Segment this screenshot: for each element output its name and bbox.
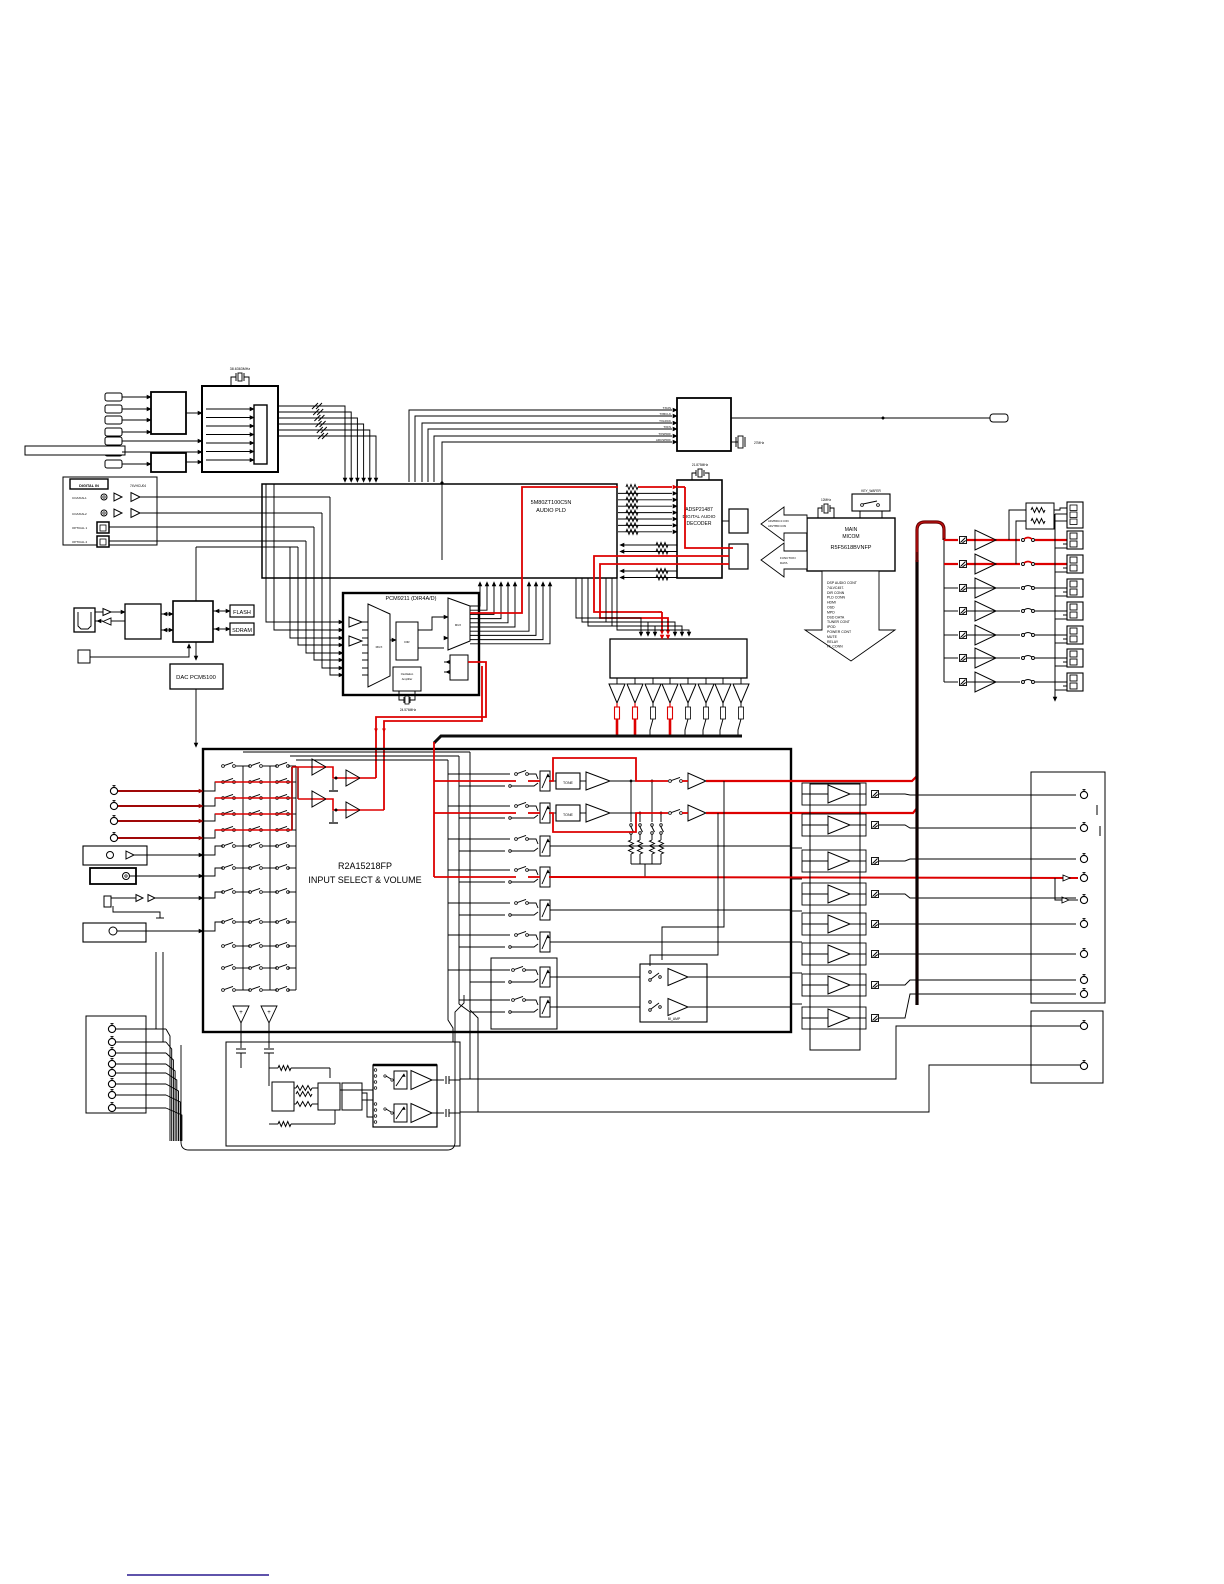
RCA aux jack <box>108 1069 115 1076</box>
svg-text:HL CONN: HL CONN <box>827 645 843 649</box>
wire <box>444 671 450 673</box>
resistor <box>705 703 707 707</box>
wire <box>288 867 296 869</box>
wire <box>967 657 1020 659</box>
resistor <box>669 703 671 707</box>
wire pair <box>448 805 510 807</box>
RCA aux jack <box>108 1091 115 1098</box>
8ch DAC box U9 <box>610 639 747 678</box>
switch <box>222 989 225 992</box>
buffer cell <box>802 883 866 905</box>
wire <box>1035 634 1067 636</box>
switch <box>515 934 518 937</box>
wire <box>206 442 250 444</box>
wire pair <box>448 902 510 904</box>
SDRAM box <box>230 623 254 635</box>
coupling cap <box>432 1112 444 1114</box>
main buffer R <box>682 812 688 814</box>
wire <box>288 989 296 991</box>
wire pair <box>448 934 510 936</box>
wire <box>116 1041 166 1043</box>
phono out 1 <box>460 1026 1080 1079</box>
pcm output fan to PLD <box>470 584 480 606</box>
wire <box>288 781 296 783</box>
red sw branch <box>1055 878 1062 900</box>
resistor <box>616 703 618 707</box>
red front L to riser <box>706 776 917 781</box>
svg-text:DAC PCM5100: DAC PCM5100 <box>176 675 216 681</box>
svg-text:74LVC457.: 74LVC457. <box>827 586 844 590</box>
wire jog <box>203 868 223 876</box>
wire <box>206 425 250 427</box>
wire to jack <box>879 894 1076 898</box>
wire <box>1055 513 1067 515</box>
analog bus bar <box>434 736 742 743</box>
reset square <box>78 650 90 663</box>
wire <box>550 1006 640 1008</box>
ground cap <box>332 811 334 822</box>
red analog bus from DAC <box>433 742 435 877</box>
wire <box>550 845 791 847</box>
speaker terminal block <box>1067 555 1083 573</box>
wire <box>362 652 368 654</box>
tick <box>1099 826 1101 836</box>
wire <box>117 930 199 932</box>
wire out <box>850 953 866 955</box>
RCA jack <box>110 834 117 841</box>
wire to jack <box>879 994 1076 1018</box>
wire <box>791 1003 802 1005</box>
switch <box>515 838 518 841</box>
svg-text:DSD DATA: DSD DATA <box>827 615 845 619</box>
wire in <box>802 824 828 826</box>
wire <box>322 513 339 668</box>
wire <box>288 945 296 947</box>
wire <box>1055 665 1067 667</box>
volume attenuator <box>540 932 550 952</box>
RCA aux jack <box>108 1049 115 1056</box>
phono buffer <box>411 1071 432 1090</box>
resistor <box>269 1067 278 1069</box>
tick <box>1096 805 1098 815</box>
mute relay <box>872 982 879 989</box>
RCA jack <box>110 802 117 809</box>
wire <box>306 541 339 653</box>
COAXIAL2 jack <box>101 510 107 516</box>
wire <box>122 431 147 433</box>
wire <box>791 847 802 849</box>
mute relay <box>872 791 879 798</box>
mute relay <box>872 858 879 865</box>
phones box <box>83 923 146 942</box>
PLD to DSP bus resistors <box>618 492 672 494</box>
wire <box>236 891 250 893</box>
switch <box>515 773 518 776</box>
svg-text:POWER CONT: POWER CONT <box>827 630 852 634</box>
wire <box>161 629 169 631</box>
svg-text:OPTICAL 2: OPTICAL 2 <box>72 540 88 544</box>
power amp <box>975 578 996 598</box>
wire <box>1055 642 1067 644</box>
wire <box>967 681 1020 683</box>
red input wire <box>118 805 199 807</box>
wire jog <box>203 846 223 855</box>
wire out <box>850 923 866 925</box>
lowpass buffer <box>634 678 636 684</box>
svg-text:74VHCU04: 74VHCU04 <box>130 484 146 488</box>
svg-text:MPD: MPD <box>827 610 835 614</box>
block arrow ADV con <box>761 507 807 541</box>
buffer <box>114 493 122 501</box>
switch <box>515 869 518 872</box>
switch <box>222 813 225 816</box>
wire <box>109 540 306 542</box>
svg-text:R2A15218FP: R2A15218FP <box>338 861 392 871</box>
wire <box>1054 520 1067 522</box>
wire DAC to volume IC <box>195 689 197 743</box>
switch <box>249 765 252 768</box>
PCM9211 box U8 <box>343 593 479 695</box>
speaker sense connector <box>1067 502 1083 528</box>
wire <box>298 547 339 645</box>
lowpass buffer <box>722 678 724 684</box>
switch <box>249 967 252 970</box>
wire <box>206 408 250 410</box>
switch <box>249 781 252 784</box>
RCA out jack <box>1080 990 1087 997</box>
svg-text:COAXIAL1: COAXIAL1 <box>72 496 87 500</box>
crystal X3 12MHz <box>818 508 822 518</box>
svg-text:COAXIAL2: COAXIAL2 <box>72 512 87 516</box>
HDMI TX box U4 <box>677 398 731 451</box>
BI_AMP box <box>640 964 707 1022</box>
biamp buffer <box>668 999 688 1016</box>
relay <box>960 561 967 568</box>
wire U1 to U3 <box>186 412 198 414</box>
RCA out jack <box>1080 791 1087 798</box>
red front R to riser <box>706 808 917 813</box>
wire usb link <box>196 546 298 548</box>
speaker relay rail riser <box>915 560 918 1005</box>
wire <box>236 829 250 831</box>
stub CN6 <box>990 414 1008 422</box>
red input wire <box>118 837 199 839</box>
DIGITAL IN box <box>63 477 157 545</box>
lowpass buffer <box>616 678 618 684</box>
RCA out jack <box>1080 976 1087 983</box>
DIR box <box>396 622 418 660</box>
wire <box>95 611 103 613</box>
amp bus vertical <box>943 540 945 682</box>
wire <box>140 496 330 498</box>
wire in <box>802 953 828 955</box>
buffer cell <box>802 974 866 996</box>
wire out <box>850 1017 866 1019</box>
wire <box>1055 689 1067 691</box>
switch <box>512 969 515 972</box>
RCA out jack <box>1080 920 1087 927</box>
svg-text:TXFS: TXFS <box>663 425 671 429</box>
front aux connector box <box>86 1016 146 1113</box>
matrix bus vertical <box>242 766 244 990</box>
wire <box>206 451 250 453</box>
wire <box>330 497 339 675</box>
red rec path R <box>326 799 360 810</box>
svg-text:DIR CONN: DIR CONN <box>827 591 845 595</box>
wire <box>791 910 802 912</box>
wire out <box>850 893 866 895</box>
svg-text:DECODER: DECODER <box>686 521 711 527</box>
rec buffer R <box>312 791 326 807</box>
switch <box>384 1108 386 1110</box>
svg-text:DIGITAL AUDIO: DIGITAL AUDIO <box>683 514 716 519</box>
buffer <box>103 609 111 616</box>
wire <box>610 780 668 782</box>
svg-text:MICOM: MICOM <box>842 534 859 540</box>
resistor <box>296 1092 312 1097</box>
dac feed wires <box>576 578 641 634</box>
USB interface box <box>125 604 161 639</box>
wire <box>122 440 198 442</box>
speaker protector switch <box>1022 657 1025 660</box>
switch <box>249 867 252 870</box>
USB DSP box <box>173 601 213 642</box>
switch <box>249 829 252 832</box>
wire to bus <box>720 719 723 736</box>
wire <box>967 634 1020 636</box>
switch <box>276 967 279 970</box>
speaker terminal block <box>1067 579 1083 597</box>
speaker protector switch <box>1022 539 1025 542</box>
wire out <box>850 984 866 986</box>
RCA jack <box>110 817 117 824</box>
RCA out jack <box>1080 855 1087 862</box>
wire <box>122 451 198 453</box>
wire <box>288 797 296 799</box>
power amp <box>975 672 996 692</box>
red net dsp return 2 <box>600 564 729 632</box>
wire <box>236 867 250 869</box>
main micom U7 <box>807 518 895 571</box>
resistor <box>634 703 636 707</box>
mute relay <box>872 921 879 928</box>
red matrix riser 2 <box>297 767 299 799</box>
switch <box>249 797 252 800</box>
wire <box>111 897 136 899</box>
switch <box>276 921 279 924</box>
wire pair <box>448 773 510 775</box>
svg-text:HDMI: HDMI <box>827 601 836 605</box>
switch <box>249 891 252 894</box>
resistor <box>652 703 654 707</box>
wire <box>791 972 802 974</box>
buffer <box>148 895 155 902</box>
red rec path L <box>326 767 360 778</box>
wire <box>236 967 250 969</box>
wire <box>362 667 368 669</box>
wire pair <box>448 969 510 971</box>
svg-text:DATA: DATA <box>780 561 788 565</box>
relay <box>960 679 967 686</box>
main buffer L <box>682 780 688 782</box>
switch <box>649 971 652 974</box>
RCA out jack <box>1080 874 1087 881</box>
net branch <box>630 781 632 822</box>
RCA aux jack <box>108 1025 115 1032</box>
wire pair <box>448 838 510 840</box>
svg-text:21.875MHz: 21.875MHz <box>692 463 709 467</box>
relay box 3 <box>342 1083 362 1110</box>
volume attenuator <box>540 900 550 920</box>
svg-text:MUTE: MUTE <box>827 635 838 639</box>
wire to jack <box>879 923 1076 925</box>
switch <box>515 902 518 905</box>
wire <box>944 587 958 589</box>
wire <box>362 644 368 646</box>
cap R <box>268 1023 270 1048</box>
svg-text:Amplifier: Amplifier <box>402 677 413 681</box>
wire <box>288 967 296 969</box>
RCA out jack <box>1080 896 1087 903</box>
switch <box>669 812 672 815</box>
connector stub <box>105 416 122 424</box>
bottom routing loop <box>181 995 464 1150</box>
red tone row L <box>434 780 516 782</box>
wire pair <box>448 869 510 871</box>
buffer <box>114 509 122 517</box>
wire U4 to antenna stub <box>731 417 990 419</box>
wire <box>1054 508 1067 510</box>
bus exit diagonals <box>448 998 453 1042</box>
wire <box>90 646 189 657</box>
wire <box>288 921 296 923</box>
wire <box>525 1000 538 1005</box>
volume attenuator <box>540 997 550 1017</box>
power amp <box>975 625 996 645</box>
resistor <box>740 703 742 707</box>
bus hop arrows <box>375 729 378 732</box>
wire in <box>802 860 828 862</box>
wire <box>206 434 250 436</box>
svg-text:BI_AMP: BI_AMP <box>668 1017 681 1021</box>
wire <box>1035 587 1067 589</box>
impedance resistor box <box>1026 503 1054 529</box>
switch <box>276 989 279 992</box>
red net dsp internal <box>685 487 733 548</box>
volume attenuator <box>540 771 550 791</box>
ADC box <box>450 655 468 680</box>
crystal X2 21.875MHz <box>692 473 696 480</box>
wire <box>967 539 1020 541</box>
wire to jack <box>879 980 1076 985</box>
wire <box>236 781 250 783</box>
svg-text:OSD: OSD <box>827 606 835 610</box>
svg-text:KEY_WAFER: KEY_WAFER <box>861 489 881 493</box>
wire jog <box>203 830 223 838</box>
matrix top feeds <box>296 759 448 761</box>
switch <box>276 797 279 800</box>
wire <box>944 610 958 612</box>
wire pair <box>459 999 510 1001</box>
volume attenuator <box>540 867 550 887</box>
wire <box>362 659 368 661</box>
wire <box>528 806 538 811</box>
MUX2 <box>448 598 470 650</box>
resistor <box>687 703 689 707</box>
aux bundle <box>166 1029 170 1141</box>
wire <box>688 976 791 978</box>
zone volume sub box <box>491 958 557 1029</box>
wire <box>688 1006 791 1008</box>
relay <box>960 608 967 615</box>
HDMI switch U3 <box>202 386 278 472</box>
wire <box>362 629 368 631</box>
wire <box>288 891 296 893</box>
sw2 jack buffer <box>1062 897 1069 903</box>
front biamp verticals <box>662 781 724 960</box>
wire <box>944 681 958 683</box>
HDMI RX box U1 <box>151 392 186 434</box>
wire <box>122 463 147 465</box>
svg-text:+: + <box>239 1010 243 1016</box>
crystal X5 27MHz <box>731 441 738 443</box>
speaker protector switch <box>1022 587 1025 590</box>
wire <box>134 854 199 856</box>
red net dsp return 1 <box>594 556 729 612</box>
wire <box>314 527 339 660</box>
MUX1 <box>368 604 390 687</box>
buffer cell <box>802 1007 866 1029</box>
wire jog <box>203 798 223 806</box>
red net adc to record <box>376 662 486 778</box>
svg-text:27MHz: 27MHz <box>754 441 765 445</box>
sw jack buffer <box>1063 875 1070 881</box>
red tone row R <box>434 812 516 814</box>
rec wire L <box>292 766 326 768</box>
RCA out jack <box>1080 950 1087 957</box>
wire in <box>802 893 828 895</box>
buffer cell <box>802 783 866 805</box>
matrix bus vertical <box>295 766 297 990</box>
wire <box>610 812 668 814</box>
mute relay <box>872 1015 879 1022</box>
switch <box>249 945 252 948</box>
wire <box>1055 547 1067 549</box>
USB jack <box>74 608 95 632</box>
wire <box>528 935 538 940</box>
switch <box>222 829 225 832</box>
wire to bus <box>616 719 619 736</box>
wire <box>362 1099 373 1101</box>
wire <box>294 1087 296 1089</box>
audio PLD U5 5M80ZT100C5N <box>262 484 617 578</box>
buffer out <box>103 618 111 625</box>
svg-text:12MHz: 12MHz <box>821 498 832 502</box>
dac input red arrows <box>660 635 664 639</box>
svg-text:TUNER CONT: TUNER CONT <box>827 620 851 624</box>
svg-text:ADV7850 CON: ADV7850 CON <box>768 524 786 528</box>
wire <box>449 1079 460 1081</box>
switch <box>276 813 279 816</box>
DAC PCM5100 box <box>170 664 223 689</box>
resistor <box>296 1102 312 1107</box>
wire <box>116 1107 166 1109</box>
wire <box>550 909 791 911</box>
wire <box>362 637 368 639</box>
wire <box>294 1103 296 1105</box>
switch <box>384 1075 386 1077</box>
footer link line <box>127 1574 269 1576</box>
